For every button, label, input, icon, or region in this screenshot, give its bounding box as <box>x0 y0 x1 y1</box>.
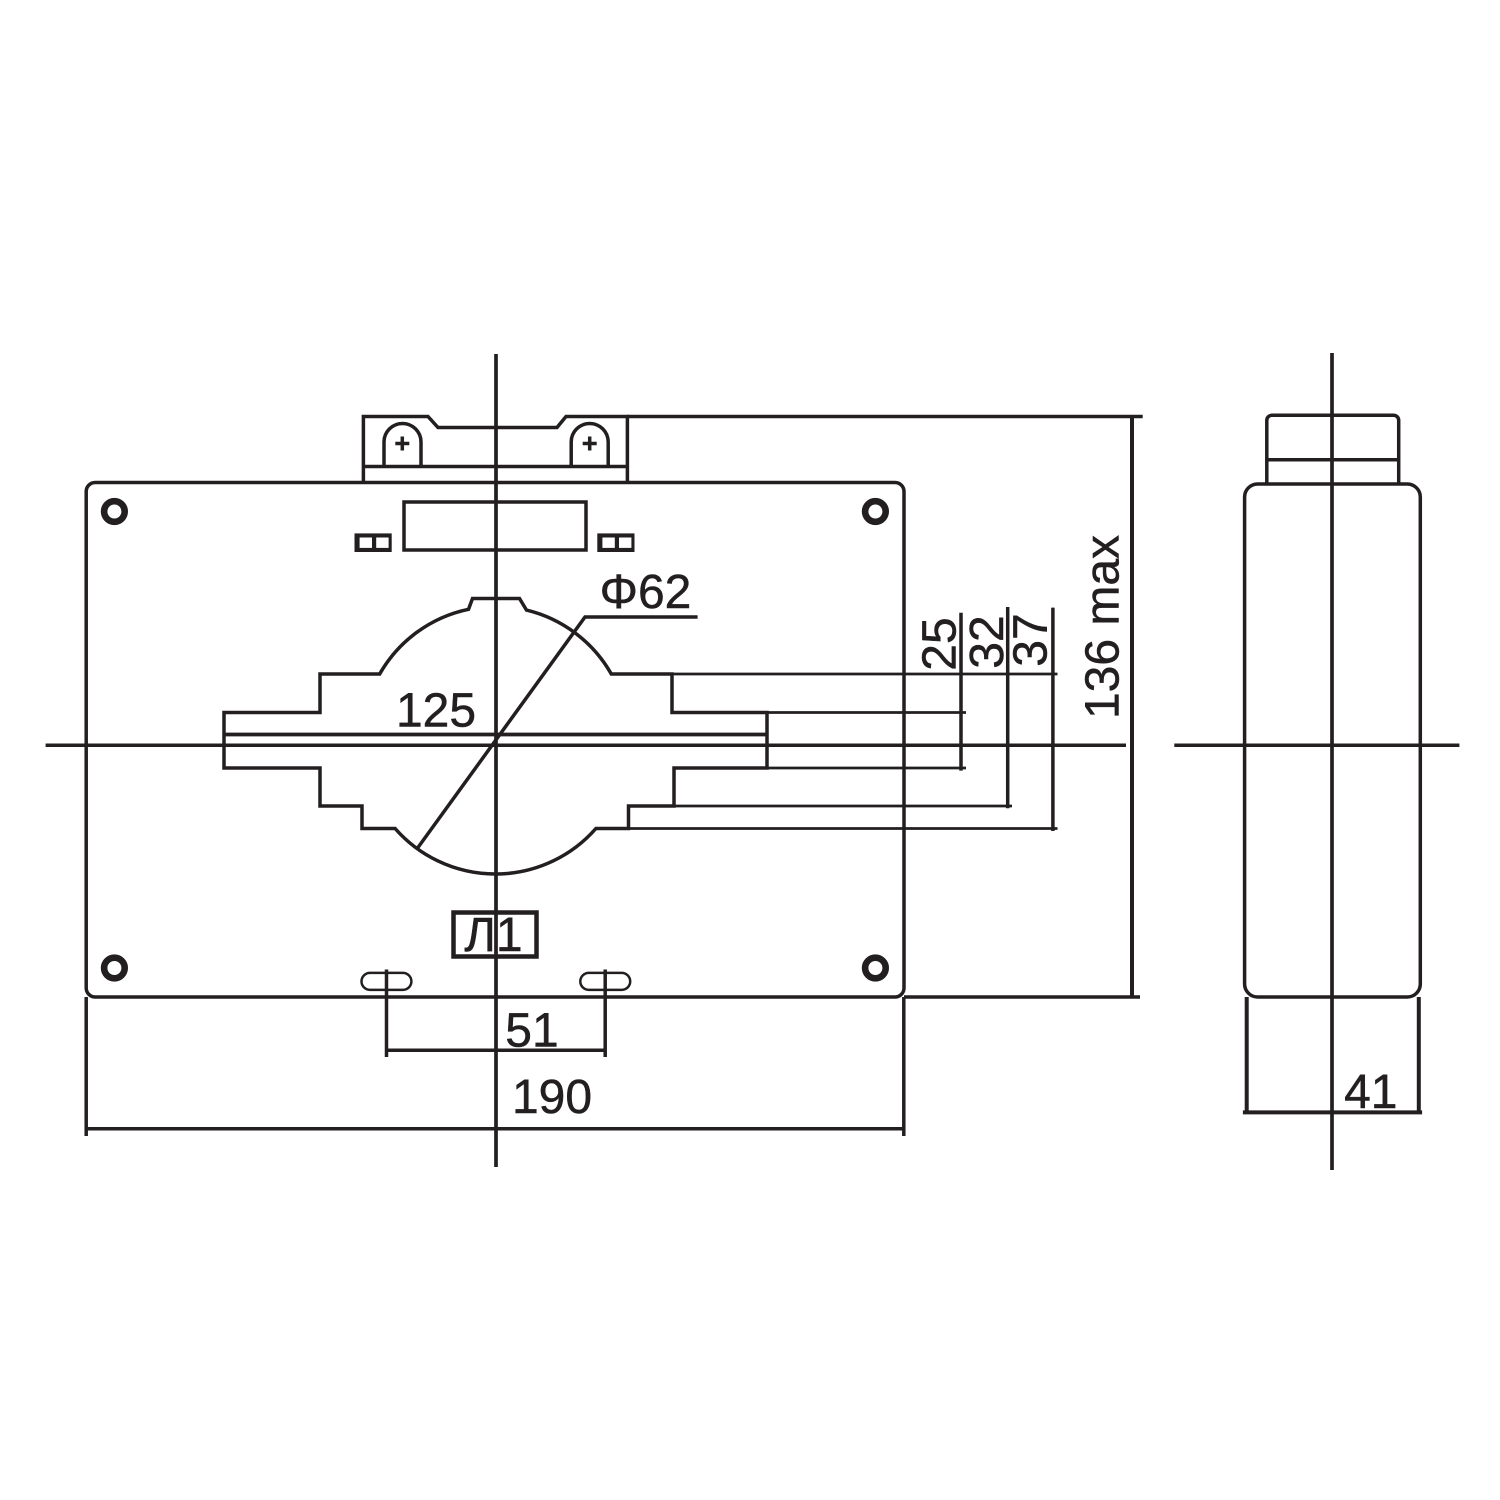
svg-text:41: 41 <box>1344 1066 1397 1119</box>
svg-text:136 max: 136 max <box>1077 535 1130 719</box>
svg-text:37: 37 <box>1005 613 1058 666</box>
svg-text:190: 190 <box>512 1071 592 1124</box>
svg-text:51: 51 <box>505 1005 558 1058</box>
svg-text:25: 25 <box>914 617 967 670</box>
svg-text:125: 125 <box>396 685 476 738</box>
svg-text:Л1: Л1 <box>464 909 522 962</box>
svg-text:Φ62: Φ62 <box>600 566 692 619</box>
